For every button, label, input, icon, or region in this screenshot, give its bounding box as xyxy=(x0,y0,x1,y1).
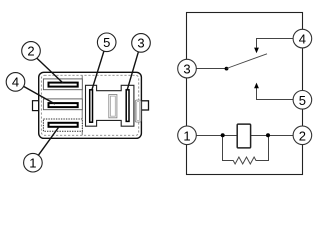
pin 3 terminal blade xyxy=(126,90,129,122)
junction dot left xyxy=(221,133,225,137)
schematic enclosure xyxy=(187,13,303,175)
wire: terminal 3 to pivot xyxy=(196,68,226,70)
right keyway rectangle xyxy=(135,100,141,122)
resistor parallel loop xyxy=(223,136,269,165)
switch pivot junction xyxy=(225,67,229,71)
pin 4 slot outline xyxy=(43,99,82,110)
junction dot right xyxy=(266,133,270,137)
wire: terminal 4 elbow xyxy=(257,39,294,48)
callout circle 2 xyxy=(22,42,41,61)
leader line 5 xyxy=(92,51,104,89)
pin 4 terminal blade xyxy=(49,103,78,107)
relay body xyxy=(39,72,142,138)
leader line 2 xyxy=(37,58,64,83)
switch arm xyxy=(227,54,268,69)
contact arrow 4 (normally closed) xyxy=(254,48,259,54)
compartment divider xyxy=(81,76,83,136)
left mounting tab xyxy=(33,101,39,111)
leader line 4 xyxy=(24,86,55,104)
wire: terminal 5 elbow xyxy=(257,88,294,100)
leader line 1 xyxy=(38,127,59,156)
svg-text:2: 2 xyxy=(27,44,34,59)
terminal circle 4 xyxy=(293,29,312,48)
pin 1 slot outline (dashed) xyxy=(43,119,82,131)
pin 5 terminal blade xyxy=(90,90,93,122)
svg-text:5: 5 xyxy=(103,35,110,50)
pin 2 slot outline xyxy=(43,79,82,90)
svg-text:2: 2 xyxy=(299,128,306,143)
terminal circle 1 xyxy=(178,126,197,145)
callout circle 3 xyxy=(132,34,151,53)
callout circle 5 xyxy=(97,33,116,52)
svg-text:5: 5 xyxy=(299,93,306,108)
terminal circle 2 xyxy=(293,126,312,145)
contact arrow 5 (normally open) xyxy=(254,83,259,89)
pin 1 terminal blade xyxy=(49,123,78,127)
terminal circle 3 xyxy=(178,59,197,78)
center keyway rectangle xyxy=(109,95,117,118)
terminal circle 5 xyxy=(293,91,312,110)
svg-text:3: 3 xyxy=(137,36,144,51)
callout circle 1 xyxy=(24,153,43,172)
svg-text:1: 1 xyxy=(29,155,36,170)
svg-text:4: 4 xyxy=(12,75,19,90)
relay body inner dashed outline xyxy=(41,75,138,135)
center moulding (H-shape) xyxy=(86,85,134,126)
wire: terminal 1 to terminal 2 xyxy=(196,135,293,137)
callout circle 4 xyxy=(6,73,25,92)
pin 2 terminal blade xyxy=(49,83,78,87)
relay coil box xyxy=(237,124,250,148)
svg-text:4: 4 xyxy=(299,32,306,47)
svg-text:3: 3 xyxy=(183,62,190,77)
svg-text:1: 1 xyxy=(183,128,190,143)
right mounting tab xyxy=(141,101,148,110)
leader line 3 xyxy=(127,52,138,90)
